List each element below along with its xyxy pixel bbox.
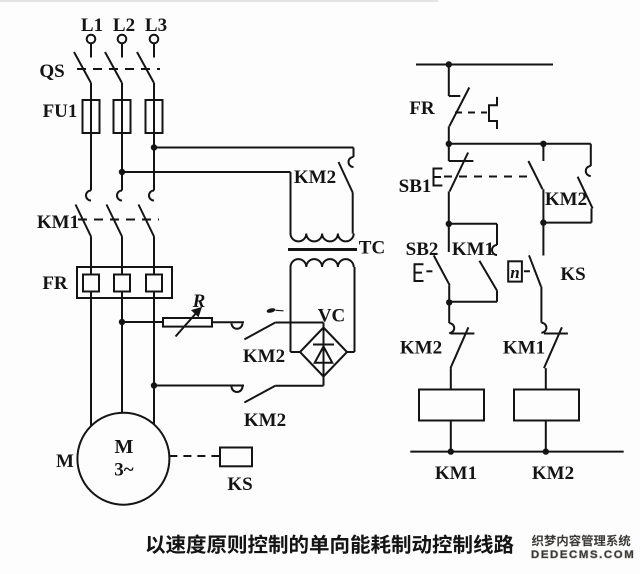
svg-text:KM1: KM1 <box>452 239 494 260</box>
wire to lower KM2 contact <box>154 385 244 387</box>
contactor KM1 main pole 2 <box>121 148 123 191</box>
wire KM2 coil to rail <box>545 421 547 452</box>
wire to KM1 latch <box>449 223 497 225</box>
wire to TC primary left <box>290 172 292 234</box>
node top rail <box>446 61 452 67</box>
FR heater actuator symbol <box>489 97 497 129</box>
svg-text:R: R <box>192 291 206 312</box>
svg-text:KM2: KM2 <box>244 410 286 431</box>
button SB1 NO <box>542 144 544 161</box>
svg-text:KS: KS <box>560 264 585 285</box>
contactor KM1 main pole 3 <box>153 148 155 191</box>
switch QS pole 3 <box>153 43 155 57</box>
svg-text:L3: L3 <box>145 15 167 36</box>
QS linkage dashed line <box>77 68 160 70</box>
FR heater pole 3 <box>146 275 162 292</box>
button SB2 NO <box>448 224 450 252</box>
speed actuator n box <box>508 261 522 281</box>
KS dash <box>524 270 534 272</box>
transformer TC primary winding <box>291 234 354 242</box>
svg-text:FU1: FU1 <box>43 101 78 122</box>
SB1 linkage dashed <box>444 176 533 178</box>
FR heater pole 1 <box>83 275 99 292</box>
thermal relay FR box <box>77 267 172 298</box>
wire L3 tap to TC primary right <box>154 147 354 149</box>
button SB1 NC <box>448 144 450 161</box>
switch QS pole 1 <box>90 43 92 57</box>
node below SB1 <box>446 221 452 227</box>
svg-text:L2: L2 <box>113 15 135 36</box>
motor M 3-phase <box>77 413 169 505</box>
node coil KM1 bottom <box>448 448 454 454</box>
node on L2 to braking supply <box>119 169 125 175</box>
contact KM1 NC interlock <box>541 323 546 333</box>
faint scan border top <box>0 0 438 2</box>
wire KM1 coil to rail <box>450 421 452 452</box>
contact KS NO <box>529 255 541 286</box>
svg-text:SB2: SB2 <box>406 239 439 260</box>
wire KS branch <box>542 223 544 256</box>
contact FR control NC <box>448 65 450 97</box>
svg-text:KS: KS <box>227 474 252 495</box>
wire to resistor R <box>122 321 163 323</box>
wire R to KM2 contact <box>212 321 244 323</box>
watermark line 1 <box>532 535 544 547</box>
SB2 actuator <box>415 264 424 281</box>
caption <box>146 535 165 553</box>
svg-text:M: M <box>56 451 74 472</box>
node KM2 branch join <box>540 219 546 225</box>
svg-text:KM2: KM2 <box>243 346 285 367</box>
wire KM2 to VC plus <box>275 322 323 324</box>
rectifier bridge VC <box>300 328 347 377</box>
resistor R <box>163 318 212 327</box>
node below FR <box>446 141 452 147</box>
contact KM2 NC interlock <box>448 302 450 323</box>
coil KM2 <box>514 390 579 421</box>
contact KM2 at TC primary <box>353 148 355 158</box>
contact KM2 braking lower <box>232 387 243 393</box>
contact KM2 aux NO <box>590 144 592 166</box>
svg-text:DEDECMS.COM: DEDECMS.COM <box>531 549 635 561</box>
svg-text:3~: 3~ <box>114 460 134 481</box>
node rail2 at KS branch <box>540 141 546 147</box>
svg-text:L1: L1 <box>81 15 103 36</box>
node above KM2 NC <box>446 299 452 305</box>
control bottom rail <box>410 451 623 453</box>
svg-text:FR: FR <box>42 273 68 294</box>
wire KM2 to VC minus <box>275 385 323 387</box>
svg-text:KM2: KM2 <box>532 463 574 484</box>
fuse FU1 pole 1 <box>90 83 92 140</box>
terminal L3 <box>150 35 159 44</box>
wire FR to motor phase 1 <box>90 298 92 426</box>
svg-text:KM1: KM1 <box>435 463 477 484</box>
svg-text:KM2: KM2 <box>545 189 587 210</box>
control rail 2 <box>449 143 591 145</box>
node on phase 3 to braking <box>151 382 157 388</box>
speed relay KS box <box>220 448 252 467</box>
node coil KM2 bottom <box>543 448 549 454</box>
KM1 linkage dashed line <box>78 219 159 221</box>
svg-text:n: n <box>510 263 519 282</box>
node on phase 2 to resistor R <box>119 319 125 325</box>
wire FR to motor phase 3 <box>153 298 155 424</box>
FR heater pole 2 <box>114 275 130 292</box>
svg-text:SB1: SB1 <box>399 176 432 197</box>
SB1 actuator <box>434 169 443 186</box>
fuse FU1 pole 3 <box>153 83 155 148</box>
wire KM1 to FR pole3 <box>153 237 155 268</box>
coil KM1 <box>419 390 484 421</box>
contact KM2 braking upper <box>232 323 243 329</box>
svg-text:KM2: KM2 <box>400 338 442 359</box>
svg-text:KM2: KM2 <box>294 167 336 188</box>
svg-text:FR: FR <box>409 98 435 119</box>
wire KM1 to FR pole1 <box>90 237 92 268</box>
switch QS pole 2 <box>121 43 123 57</box>
transformer TC secondary winding <box>291 259 354 267</box>
wire KM1 to FR pole2 <box>121 237 123 268</box>
SB2 dash <box>426 270 435 272</box>
terminal L2 <box>118 35 127 44</box>
svg-text:QS: QS <box>39 61 64 82</box>
svg-text:M: M <box>115 436 134 458</box>
contactor KM1 main pole 1 <box>90 140 92 191</box>
wire to TC primary right <box>352 193 354 234</box>
fuse FU1 pole 2 <box>121 83 123 148</box>
wire TC secondary right to VC <box>354 267 356 352</box>
svg-text:KM1: KM1 <box>37 212 79 233</box>
FR dashed link <box>455 112 487 114</box>
wire FR to motor phase 2 <box>121 298 123 413</box>
wire L2 tap to TC primary left <box>122 171 291 173</box>
svg-text:TC: TC <box>359 238 385 259</box>
dashed shaft link to KS <box>169 455 219 457</box>
control top rail <box>416 64 553 66</box>
contact KM1 aux NO latch <box>496 224 498 245</box>
svg-text:VC: VC <box>318 306 345 327</box>
wire TC secondary left to VC <box>290 267 292 352</box>
node on L3 to braking supply <box>151 144 157 150</box>
svg-text:KM1: KM1 <box>503 338 545 359</box>
ink mark above contact <box>266 307 276 313</box>
transformer TC core <box>288 248 357 251</box>
terminal L1 <box>87 35 96 44</box>
